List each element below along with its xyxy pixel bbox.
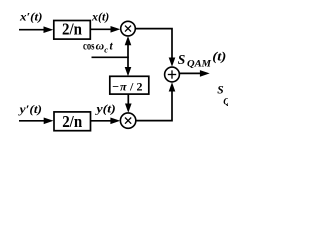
svg-text:c: c	[104, 45, 108, 55]
svg-text:QAM: QAM	[187, 59, 212, 69]
wire M1 to adder (right then down)	[135, 29, 172, 60]
svg-text:x(t): x(t)	[91, 12, 110, 24]
svg-text:x′(t): x′(t)	[19, 11, 43, 23]
wire input arrow to top 2/n block	[19, 29, 46, 31]
adder	[165, 67, 180, 82]
svg-text:/: /	[129, 80, 134, 94]
multiplier M2	[120, 113, 135, 128]
multiplier M1	[121, 21, 136, 36]
svg-text:y′(t): y′(t)	[17, 104, 42, 116]
wire box to multiplier M2	[91, 120, 113, 122]
wire carrier vertical down to phase shifter	[127, 57, 129, 69]
wire M2 to adder (right then up)	[136, 90, 172, 121]
wire phase shifter to M2	[127, 94, 129, 106]
wire input arrow to bottom 2/n block	[19, 120, 46, 122]
wire carrier lead	[92, 56, 129, 58]
svg-text:2: 2	[137, 80, 143, 94]
wire box to multiplier M1	[90, 28, 112, 30]
block U2 2/n bottom	[54, 112, 91, 131]
svg-text:cos: cos	[83, 40, 95, 52]
wire output arrow	[179, 72, 202, 74]
svg-text:ω: ω	[96, 41, 105, 53]
svg-text:−: −	[112, 80, 119, 94]
svg-text:Q: Q	[223, 98, 228, 108]
svg-text:(t): (t)	[212, 49, 226, 63]
block U1 2/n top	[54, 21, 91, 40]
svg-text:S: S	[217, 85, 223, 97]
svg-text:2/n: 2/n	[62, 20, 82, 39]
svg-text:2/n: 2/n	[62, 112, 82, 131]
svg-text:π: π	[120, 80, 127, 94]
svg-text:y(t): y(t)	[94, 103, 116, 115]
block phase shifter -pi/2	[110, 76, 149, 94]
wire carrier vertical to M1 (up arrow)	[127, 43, 129, 57]
svg-text:S: S	[178, 52, 186, 67]
